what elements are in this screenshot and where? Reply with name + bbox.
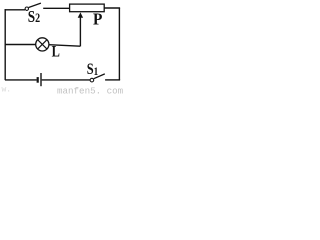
svg-text:L: L — [52, 43, 60, 61]
wire middle branch right — [49, 45, 81, 47]
wire top middle horizontal — [43, 7, 69, 9]
switch S2 pivot circle — [25, 7, 28, 10]
wire bottom right horizontal — [105, 79, 120, 81]
wire top left horizontal — [5, 9, 25, 11]
switch S1 blade — [94, 74, 105, 79]
wire left vertical — [4, 9, 6, 80]
switch S1 pivot circle — [90, 78, 94, 82]
rheostat P body — [70, 4, 105, 12]
svg-text:S2: S2 — [28, 9, 41, 27]
wire bottom middle horizontal — [42, 79, 90, 81]
switch S2 blade — [29, 3, 41, 7]
svg-text:P: P — [93, 11, 103, 29]
lamp L — [36, 38, 49, 51]
wire right vertical — [118, 8, 120, 80]
rheostat P wiper arrow — [79, 17, 81, 47]
wire middle branch left — [5, 44, 36, 46]
battery positive long plate — [40, 73, 42, 86]
svg-text:manfen5. com: manfen5. com — [57, 86, 124, 95]
svg-text:w.: w. — [2, 86, 12, 95]
wire top right horizontal — [104, 7, 120, 9]
wire bottom left horizontal — [5, 79, 37, 81]
battery negative short plate — [37, 77, 39, 83]
